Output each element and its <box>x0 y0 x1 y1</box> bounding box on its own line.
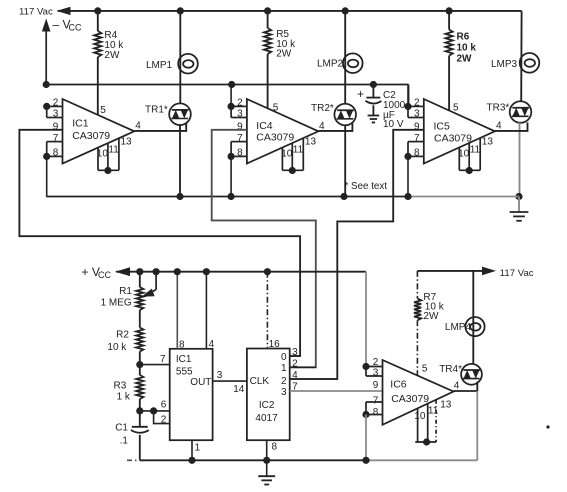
pin 4 label IC4 <box>319 121 325 132</box>
555 pin 1 label <box>195 443 201 454</box>
svg-text:7: 7 <box>53 133 59 144</box>
label LMP4 <box>445 322 472 333</box>
label R3 value <box>114 381 131 403</box>
wire: gate TR3 from IC5 pin 4 <box>495 122 528 130</box>
svg-text:2: 2 <box>373 357 379 368</box>
op-amp style zero-voltage switch IC1 (CA3079) triangle <box>63 99 135 164</box>
svg-text:* See text: * See text <box>345 181 388 192</box>
svg-text:2: 2 <box>281 376 287 387</box>
svg-text:8: 8 <box>179 340 185 351</box>
wire: IC5 pin 9 to 4017 output 2 <box>290 130 424 379</box>
svg-text:3: 3 <box>292 347 298 358</box>
IC4 pins 10-11-13 tie <box>282 169 303 171</box>
label R1 value <box>101 286 133 308</box>
lamp LMP2 <box>343 53 363 73</box>
wire: 555 pin 8 to +VCC <box>176 272 178 349</box>
IC5 pin 11 lead <box>468 143 470 170</box>
svg-text:2W: 2W <box>276 48 292 59</box>
IC6 pin 7-8 tie <box>365 402 367 415</box>
IC5 pin labels 2 3 9 7 8 <box>414 98 420 159</box>
wire: R5 top lead <box>267 11 269 28</box>
IC6 pins 10-11 node <box>423 438 430 445</box>
wire: R4 top lead <box>97 11 99 31</box>
label R6 value <box>457 32 477 65</box>
svg-text:7: 7 <box>414 133 420 144</box>
svg-text:5: 5 <box>100 105 106 116</box>
wire: 555 pin 6 stub <box>140 410 170 412</box>
IC4 pin 3 stub <box>231 117 247 119</box>
IC6 pin 13 lead <box>435 400 437 442</box>
svg-text:R1: R1 <box>119 286 132 297</box>
555 pin 4 label <box>209 339 215 350</box>
117 Vac left arrowhead <box>57 7 71 15</box>
IC4 pin 2 stub <box>231 105 247 107</box>
svg-text:LMP3: LMP3 <box>491 59 518 70</box>
wire: gate TR4 from IC6 pin 4 <box>454 382 478 391</box>
pin 5 label IC5 <box>453 103 459 114</box>
svg-text:11: 11 <box>108 145 119 156</box>
label TR2* <box>311 103 334 114</box>
R1 wiper <box>142 272 157 297</box>
IC5 pin labels 10 11 13 <box>458 136 493 159</box>
IC4 pin 2 node <box>228 103 235 110</box>
svg-text:4: 4 <box>292 370 298 381</box>
wire: C1 bottom lead <box>139 435 141 461</box>
potentiometer R1 <box>136 287 143 310</box>
note: * See text <box>345 181 388 192</box>
ground (right, common rail) <box>510 197 529 221</box>
IC1 pin 2 node <box>43 103 50 110</box>
svg-text:3: 3 <box>281 387 287 398</box>
svg-text:CA3079: CA3079 <box>434 132 472 144</box>
node: TR2 / common rail <box>340 193 347 200</box>
label IC1 CA3079 <box>72 118 110 142</box>
IC5 pin 7-8 tie <box>407 142 409 157</box>
wire: 4017 pin 8 to ground rail <box>266 440 268 460</box>
wire: IC4 pin 9 to 4017 output 1 <box>212 130 316 367</box>
4017 pin 14 label <box>233 384 245 395</box>
svg-text:CA3079: CA3079 <box>391 393 429 405</box>
svg-text:2W: 2W <box>104 50 120 61</box>
svg-text:10 V: 10 V <box>383 119 404 130</box>
wire: top 117 Vac rail <box>58 10 522 12</box>
triac TR4 <box>461 364 482 385</box>
svg-text:TR3*: TR3* <box>487 103 510 114</box>
wire: 555 pin 7 stub <box>140 364 170 366</box>
svg-text:8: 8 <box>237 148 243 159</box>
svg-text:10: 10 <box>281 149 293 160</box>
IC6 pin labels 10 11 13 <box>414 400 451 422</box>
label LMP2 <box>317 58 344 69</box>
svg-text:8: 8 <box>373 407 379 418</box>
IC4 pin 7-8 tie <box>230 142 232 157</box>
IC4 pin labels 2 3 9 7 8 <box>237 98 243 159</box>
svg-text:1 MEG: 1 MEG <box>101 297 132 308</box>
svg-text:IC6: IC6 <box>390 379 407 391</box>
wire: TR1 to common rail <box>179 125 181 197</box>
label IC1 555 OUT <box>176 354 212 388</box>
resistor R3 <box>136 375 143 399</box>
IC1 pin labels 2 3 9 7 8 <box>53 98 59 159</box>
wire: TR2 to common rail <box>344 125 346 196</box>
label TR3* <box>487 103 510 114</box>
node: bottom rail / 555 pin 1 <box>188 457 195 464</box>
resistor R4 <box>94 31 101 57</box>
IC5 pin 10 lead <box>458 147 460 170</box>
op-amp style zero-voltage switch IC4 (CA3079) triangle <box>247 99 319 164</box>
node: hot rail / IC4 pins 2-3 <box>228 81 235 88</box>
svg-text:IC4: IC4 <box>256 120 273 132</box>
wire: hot rail corner down to IC5 pin 2 <box>408 85 410 107</box>
label -VCC <box>53 17 82 32</box>
IC5 pin 8 stub <box>408 155 424 157</box>
svg-text:2: 2 <box>237 98 243 109</box>
svg-text:16: 16 <box>269 339 281 350</box>
label +VCC <box>82 265 112 280</box>
svg-text:IC1: IC1 <box>176 354 192 365</box>
svg-text:13: 13 <box>482 136 494 147</box>
label R7 value <box>423 292 444 322</box>
svg-text:10 k: 10 k <box>457 43 477 54</box>
pin 4 label IC1 <box>135 121 141 132</box>
svg-text:LMP4: LMP4 <box>445 322 472 333</box>
ground (C2) <box>368 116 380 123</box>
svg-text:11: 11 <box>428 405 439 416</box>
triac TR2 <box>334 104 356 126</box>
svg-text:10: 10 <box>458 149 470 160</box>
wire: TR3 to common rail <box>519 123 521 197</box>
node: pin6/pin2 tie <box>150 407 157 414</box>
wire: R7 to IC6 pin 5 <box>416 320 418 375</box>
svg-text:CA3079: CA3079 <box>72 130 110 142</box>
lamp LMP3 <box>520 53 540 73</box>
label C1 value <box>115 422 128 446</box>
svg-text:7: 7 <box>237 133 243 144</box>
svg-text:2W: 2W <box>423 311 439 322</box>
label IC5 CA3079 <box>434 121 473 145</box>
label 117 Vac (top-left) <box>19 6 53 17</box>
svg-text:4: 4 <box>209 339 215 350</box>
wire: IC5 pins 7-8 riser to common rail <box>407 156 409 196</box>
triac TR3 <box>510 101 532 123</box>
svg-text:5: 5 <box>422 364 428 375</box>
wire: R1 top lead <box>139 272 141 287</box>
svg-text:TR1*: TR1* <box>145 104 168 115</box>
label C2 value <box>383 90 406 130</box>
IC6 pin 2 node <box>362 363 369 370</box>
IC5 pins 10-11-13 tie <box>459 169 480 171</box>
label IC6 CA3079 <box>390 379 429 405</box>
IC1 pin 10 lead <box>97 148 99 171</box>
pin 4 label IC5 <box>496 121 502 132</box>
svg-text:11: 11 <box>293 145 304 156</box>
timer IC1 555 box <box>170 349 213 440</box>
node: -VCC / hot rail <box>43 81 50 88</box>
svg-text:13: 13 <box>440 400 452 411</box>
IC6 pin 8 stub <box>366 414 383 416</box>
IC6 pin 10 lead <box>417 408 419 442</box>
node: +VCC / 555 pin 8 <box>174 268 181 275</box>
label IC2 4017 <box>255 400 278 424</box>
wire: 555 pin 4 to +VCC <box>205 272 207 349</box>
IC1 pins 10-11-13 tie <box>98 169 119 171</box>
IC4 pin 8 node <box>228 153 235 160</box>
wire: gate TR1 from IC1 pin 4 <box>134 123 186 131</box>
node: TR1 / common rail <box>176 193 183 200</box>
resistor R2 <box>136 328 143 352</box>
resistor R6 <box>446 30 453 56</box>
svg-text:CC: CC <box>69 22 82 32</box>
IC6 pins 10-11-13 tie <box>415 441 436 443</box>
IC6 pin 4 label <box>454 380 460 391</box>
svg-text:13: 13 <box>121 136 133 147</box>
node: R2/R3/pin7 <box>136 361 143 368</box>
4017 output 3 (pin 7) wire to IC6 pin 9 <box>290 390 383 392</box>
counter IC2 4017 box <box>247 349 290 441</box>
node: IC4 riser / common rail <box>228 193 235 200</box>
IC6 pin labels 2 3 9 7 8 <box>373 357 379 418</box>
555 pin 2 label <box>161 415 167 426</box>
IC6 pin 2-3 tie <box>365 367 367 377</box>
wire: R7 top lead <box>416 271 418 299</box>
svg-text:.1: .1 <box>120 436 129 447</box>
IC1 pin 2-3 tie <box>46 106 48 117</box>
IC4 pin 13 lead <box>302 138 304 170</box>
label TR1* <box>145 104 168 115</box>
IC5 pin 3 stub <box>408 117 424 119</box>
svg-text:2W: 2W <box>457 54 473 65</box>
IC4 pins 10-11 node <box>289 167 296 174</box>
wire: R1 to R2 <box>139 310 141 328</box>
svg-text:R2: R2 <box>116 329 129 340</box>
svg-text:2: 2 <box>292 358 298 369</box>
node: top rail / LMP1 branch <box>177 7 184 14</box>
svg-text:4: 4 <box>496 121 502 132</box>
wire: top rail right corner down through LMP3 to TR3 <box>520 11 522 102</box>
117 Vac right arrowhead <box>482 267 496 276</box>
IC1 pin 3 stub <box>47 117 63 119</box>
svg-text:R6: R6 <box>457 32 470 43</box>
wire: R6 to IC5 pin 5 <box>448 56 450 111</box>
wire: IC5 pins 2-3 riser to hot rail <box>407 85 409 107</box>
svg-text:1 k: 1 k <box>117 392 131 403</box>
svg-text:TR2*: TR2* <box>311 103 334 114</box>
svg-text:CC: CC <box>98 270 111 280</box>
4017 output stub 1 (pin 2) <box>290 366 316 368</box>
IC4 pin 8 stub <box>231 155 247 157</box>
svg-text:4: 4 <box>135 121 141 132</box>
svg-text:555: 555 <box>176 367 193 378</box>
IC5 pins 10-11 node <box>466 167 473 174</box>
svg-text:10 k: 10 k <box>107 342 127 353</box>
svg-text:1: 1 <box>281 363 287 374</box>
wire: 4017 pin 16 to +VCC <box>266 272 268 349</box>
wire: IC1 pin 9 to 4017 output 0 <box>19 130 300 356</box>
node: +VCC / R1 <box>136 268 143 275</box>
svg-text:1: 1 <box>195 443 201 454</box>
svg-text:14: 14 <box>233 384 245 395</box>
capacitor C2 <box>365 98 381 104</box>
label TR4* <box>439 364 462 375</box>
node: IC5 riser / common rail <box>404 193 411 200</box>
wire: R2 to node pin7 <box>139 352 141 376</box>
pin 5 label IC4 <box>273 103 279 114</box>
label R4 value <box>104 30 124 61</box>
svg-text:IC5: IC5 <box>434 121 451 133</box>
svg-text:2: 2 <box>161 415 167 426</box>
555 pin 6 label <box>161 399 167 410</box>
node: TR3 / common rail / ground <box>515 193 522 200</box>
555 pin 8 label <box>179 340 185 351</box>
svg-text:+: + <box>357 87 364 101</box>
IC6 pin 8 node <box>362 411 369 418</box>
power -VCC arrow <box>42 19 51 85</box>
IC1 pin 2 stub <box>47 105 63 107</box>
svg-text:10: 10 <box>414 411 426 422</box>
IC6 pin 7 stub <box>366 401 383 403</box>
wire: common rail <box>46 196 519 198</box>
wire: bottom ground rail <box>127 459 477 461</box>
svg-text:11: 11 <box>470 145 481 156</box>
svg-text:8: 8 <box>53 148 59 159</box>
IC4 pin 7 stub <box>231 141 247 143</box>
label LMP1 <box>146 60 173 71</box>
label LMP3 <box>491 59 518 70</box>
wire: C2 bottom lead <box>372 105 374 115</box>
IC1 pins 10-11 node <box>104 167 111 174</box>
svg-text:C1: C1 <box>115 422 128 433</box>
IC1 pin 7-8 tie <box>46 142 48 157</box>
wire: gate TR2 from IC4 pin 4 <box>318 123 352 131</box>
wire: hot rail (below lamps) <box>46 84 408 86</box>
resistor R7 <box>414 299 421 321</box>
IC4 pin 11 lead <box>291 143 293 170</box>
node: hot rail / C2 <box>370 81 377 88</box>
IC6 pin 2 stub <box>366 366 383 368</box>
svg-text:IC2: IC2 <box>259 400 275 411</box>
IC5 pin 8 node <box>404 153 411 160</box>
svg-text:3: 3 <box>373 368 379 379</box>
4017 pin 16 label <box>269 339 281 350</box>
wire: 555 OUT pin 3 to 4017 CLK pin 14 <box>213 380 247 382</box>
wire: 555 pin 1 to ground rail <box>191 440 193 460</box>
node: IC6 riser / ground rail <box>362 457 369 464</box>
label C2 plus <box>357 87 364 101</box>
svg-text:4017: 4017 <box>255 413 278 424</box>
label R5 value <box>276 29 296 60</box>
wire: R3 to node pins6-2 <box>139 399 141 427</box>
ground (4017 pin 8) <box>258 460 275 484</box>
lamp LMP1 <box>178 54 198 74</box>
svg-text:TR4*: TR4* <box>439 364 462 375</box>
svg-text:R3: R3 <box>114 381 127 392</box>
node: top rail / LMP2 branch <box>342 7 349 14</box>
IC1 pin 13 lead <box>118 138 120 170</box>
wire: C2 top lead <box>372 85 374 98</box>
node: +VCC / R1 wiper <box>153 268 160 275</box>
wire: +VCC rail corner down to IC6 pins 2-3 <box>365 272 367 367</box>
IC1 pin labels 10 11 13 <box>97 136 132 159</box>
IC6 pin 3 stub <box>366 375 383 377</box>
svg-text:117 Vac: 117 Vac <box>19 6 53 17</box>
IC6 pin 11 lead <box>427 404 429 442</box>
IC5 pin 7 stub <box>408 141 424 143</box>
svg-text:IC1: IC1 <box>72 118 89 130</box>
wire: LMP4 branch down through LMP4 to TR4 <box>472 271 474 364</box>
4017 pin 8 label <box>272 441 278 452</box>
svg-text:13: 13 <box>305 136 317 147</box>
node: bottom rail / 4017 pin 8 <box>263 457 270 464</box>
stray mark <box>546 425 549 428</box>
svg-text:7: 7 <box>292 381 298 392</box>
label IC4 CA3079 <box>256 120 294 143</box>
svg-text:3: 3 <box>217 370 223 381</box>
svg-text:3: 3 <box>237 109 243 120</box>
wire: R4 to IC1 pin 5 <box>97 57 99 115</box>
svg-text:LMP1: LMP1 <box>146 60 173 71</box>
label R2 value <box>107 329 129 352</box>
IC5 pin 2 node <box>404 103 411 110</box>
svg-text:10: 10 <box>97 149 109 160</box>
node: R3/C1/pin6 <box>136 407 143 414</box>
svg-text:8: 8 <box>272 441 278 452</box>
svg-text:7: 7 <box>373 395 379 406</box>
4017 output labels 0 1 2 3 <box>281 352 287 398</box>
wire: IC1 pins 7-8 riser to common rail <box>46 156 48 196</box>
node: top rail / R5 <box>264 7 271 14</box>
svg-text:4: 4 <box>454 380 460 391</box>
resistor R5 <box>264 28 271 54</box>
IC1 pin 11 lead <box>107 143 109 170</box>
wire: R6 top lead <box>448 11 450 30</box>
svg-text:8: 8 <box>414 148 420 159</box>
svg-text:OUT: OUT <box>190 377 211 388</box>
IC4 pin 10 lead <box>281 148 283 171</box>
4017 output stub 0 (pin 3) <box>290 355 300 357</box>
IC4 pin labels 10 11 13 <box>281 136 316 159</box>
svg-text:117 Vac: 117 Vac <box>500 268 534 279</box>
svg-text:CLK: CLK <box>250 376 270 387</box>
wire: TR4 riser to ground rail <box>476 391 478 460</box>
svg-text:4: 4 <box>319 121 325 132</box>
wire: 117 Vac right feed <box>417 270 483 272</box>
label CLK <box>250 376 270 387</box>
svg-text:3: 3 <box>414 109 420 120</box>
node: +VCC / 555 pin 4 <box>203 268 210 275</box>
IC1 pin 8 stub <box>47 155 63 157</box>
wire: +VCC rail <box>116 271 366 273</box>
node: +VCC / 4017 pin 16 <box>264 268 271 275</box>
555 pin 3 label <box>217 370 223 381</box>
lamp LMP4 <box>465 317 484 336</box>
svg-text:2: 2 <box>53 98 59 109</box>
capacitor C1 <box>131 427 149 433</box>
svg-text:LMP2: LMP2 <box>317 58 344 69</box>
wire: LMP1 branch down <box>179 11 181 104</box>
IC5 pin 2 stub <box>408 105 424 107</box>
wire: LMP2 branch down <box>344 11 346 104</box>
svg-text:2: 2 <box>414 98 420 109</box>
4017 pin number labels 3 2 4 7 <box>292 347 298 392</box>
IC1 pin 8 node <box>43 153 50 160</box>
4017 output stub 2 (pin 4) <box>290 378 338 380</box>
+VCC arrowhead <box>115 267 130 276</box>
wire: 555 pin 2 stub <box>154 411 170 424</box>
svg-text:7: 7 <box>160 354 166 365</box>
IC5 pin 2-3 tie <box>407 106 409 117</box>
IC5 pin 13 lead <box>479 138 481 170</box>
IC4 pin 2-3 tie <box>230 106 232 117</box>
